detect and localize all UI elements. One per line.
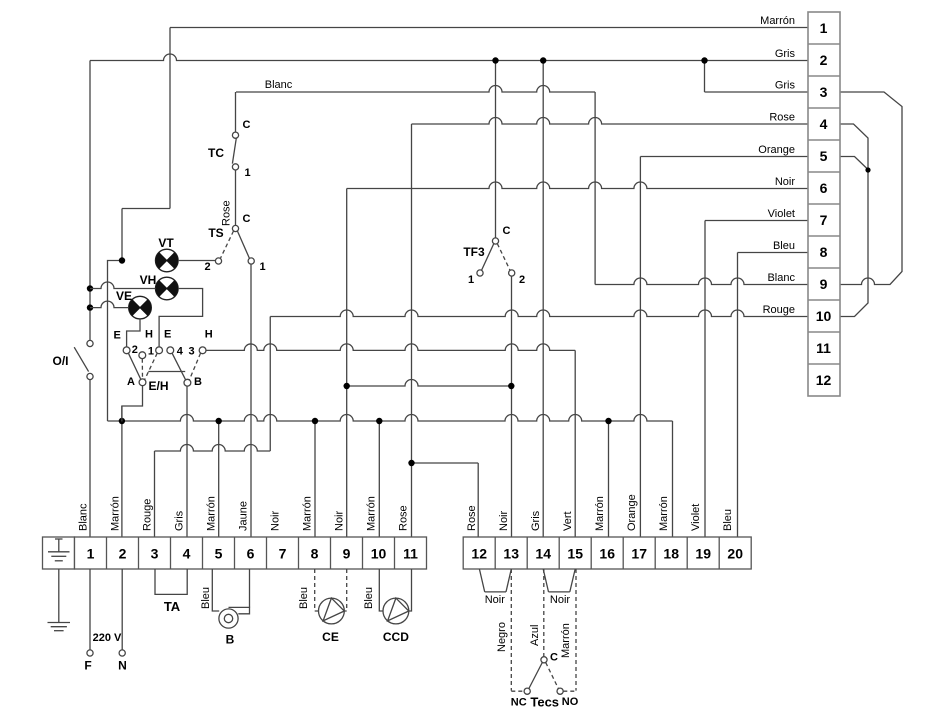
svg-text:Noir: Noir [550, 594, 571, 606]
component TA [155, 569, 187, 614]
wire TC riser [235, 92, 237, 132]
svg-text:12: 12 [816, 372, 832, 388]
svg-text:E: E [114, 329, 121, 341]
svg-text:2: 2 [132, 344, 138, 356]
svg-text:C: C [550, 652, 558, 664]
junction bus cell5 [216, 418, 222, 424]
svg-text:C: C [243, 119, 251, 131]
svg-text:5: 5 [215, 546, 223, 562]
svg-text:VH: VH [140, 273, 157, 287]
wire Blanc riser [594, 92, 596, 285]
svg-text:Blanc: Blanc [265, 79, 293, 91]
wire VH left [90, 282, 156, 289]
wire Marron to bus [108, 261, 123, 422]
wire Gris to terminal 2 [90, 54, 808, 61]
wire Violet to terminal 7 [705, 220, 808, 222]
switch TC [208, 119, 251, 179]
svg-text:Rose: Rose [466, 505, 478, 531]
lamp VH [140, 273, 178, 300]
wire Bleu to terminal 8 [738, 252, 809, 254]
svg-text:7: 7 [279, 546, 287, 562]
svg-text:Bleu: Bleu [363, 587, 375, 609]
svg-text:Rouge: Rouge [763, 304, 795, 316]
svg-text:Gris: Gris [174, 510, 186, 531]
svg-text:Vert: Vert [562, 511, 574, 531]
wire Orange to terminal 5 [640, 156, 808, 158]
svg-text:Marrón: Marrón [110, 496, 122, 531]
svg-text:E: E [164, 329, 171, 341]
ground symbol [48, 569, 71, 631]
svg-text:12: 12 [471, 546, 487, 562]
junction VH [87, 285, 93, 291]
pump B [212, 569, 249, 647]
svg-text:Azul: Azul [529, 625, 541, 646]
svg-text:H: H [145, 329, 153, 341]
svg-text:C: C [503, 225, 511, 237]
wire cell6 to pump [249, 569, 251, 607]
junction Gris-3 [701, 57, 707, 63]
wire VH right [159, 289, 203, 348]
terminal strip 12-20 [463, 537, 751, 569]
junction bus cell2 [119, 418, 125, 424]
wire cell 5 vertical [218, 421, 220, 537]
svg-text:2: 2 [119, 546, 127, 562]
svg-text:Noir: Noir [775, 176, 796, 188]
wire cell 8 vertical [314, 421, 316, 537]
svg-text:Rose: Rose [398, 505, 410, 531]
motor CE [315, 569, 347, 644]
label Azul [529, 625, 541, 646]
wire Blanc from TC [236, 86, 595, 93]
svg-text:14: 14 [535, 546, 551, 562]
svg-text:TS: TS [208, 226, 223, 240]
wire Marron bus [108, 415, 673, 421]
wire Rouge to terminal 10 [270, 310, 808, 316]
svg-text:Blanc: Blanc [78, 503, 90, 531]
svg-text:220 V: 220 V [93, 632, 122, 644]
svg-text:VE: VE [116, 289, 132, 303]
svg-text:B: B [194, 376, 202, 388]
link Noir 12-13 [479, 569, 511, 606]
switch TF3 [463, 225, 525, 286]
wire Azul [543, 569, 545, 657]
svg-text:10: 10 [371, 546, 387, 562]
svg-text:7: 7 [820, 212, 828, 228]
svg-text:9: 9 [820, 276, 828, 292]
svg-text:1: 1 [259, 261, 265, 273]
wire E/H B to cell 4 [186, 386, 188, 537]
junction bus cell10 [376, 418, 382, 424]
svg-text:Noir: Noir [270, 510, 282, 531]
svg-text:Noir: Noir [334, 510, 346, 531]
label Bleu CE [298, 587, 310, 609]
wire Noir link [347, 380, 512, 387]
wire Gris to terminal 3 [705, 91, 809, 93]
svg-text:13: 13 [503, 546, 519, 562]
wire cell 2 vertical [121, 406, 123, 537]
wire Marron down to VT [121, 209, 123, 261]
svg-text:9: 9 [343, 546, 351, 562]
svg-text:20: 20 [727, 546, 743, 562]
terminal block 1-12 [808, 12, 840, 396]
wire VE bottom [127, 319, 140, 347]
svg-text:3: 3 [151, 546, 159, 562]
svg-text:Bleu: Bleu [200, 587, 212, 609]
svg-text:1: 1 [820, 20, 828, 36]
svg-text:Gris: Gris [775, 80, 796, 92]
svg-text:Violet: Violet [768, 208, 795, 220]
wire Violet to cell 19 [704, 221, 706, 538]
junction Gris-14 [540, 57, 546, 63]
svg-text:Bleu: Bleu [298, 587, 310, 609]
svg-text:6: 6 [247, 546, 255, 562]
switch Tecs [511, 652, 579, 710]
wire TF3-2 to cell 13 [511, 276, 513, 537]
svg-text:19: 19 [695, 546, 711, 562]
label Bleu B [200, 587, 212, 609]
svg-text:2: 2 [820, 52, 828, 68]
svg-text:17: 17 [631, 546, 647, 562]
junction bus cell16 [605, 418, 611, 424]
wire Gris vertical to O/I [89, 61, 91, 341]
svg-text:1: 1 [87, 546, 95, 562]
svg-text:Marrón: Marrón [594, 496, 606, 531]
junction Noir-9 [344, 383, 350, 389]
wire Marron to terminal 1 [170, 27, 808, 29]
junction Gris-TF3 [492, 57, 498, 63]
svg-text:Blanc: Blanc [767, 272, 795, 284]
wire Marron vertical [169, 28, 171, 209]
wire Marron Tecs [563, 569, 576, 691]
svg-text:Jaune: Jaune [238, 501, 250, 531]
svg-text:10: 10 [816, 308, 832, 324]
lamp VE [116, 289, 151, 319]
svg-text:N: N [118, 659, 127, 673]
svg-text:Marrón: Marrón [658, 496, 670, 531]
svg-text:6: 6 [820, 180, 828, 196]
svg-text:Rouge: Rouge [142, 499, 154, 531]
svg-text:Rose: Rose [769, 112, 795, 124]
wire Gris stub [704, 61, 706, 93]
label Rose TC [221, 200, 233, 226]
svg-text:VT: VT [158, 236, 174, 250]
label 220 V [93, 632, 122, 644]
labels above strip 1-11 [78, 496, 410, 531]
labels above strip 12-20 [466, 494, 734, 531]
motor CCD [379, 569, 411, 644]
svg-text:TC: TC [208, 146, 224, 160]
wire Marron jog [122, 208, 170, 210]
switch O/I [52, 340, 93, 379]
wire cell 18 vertical [672, 421, 674, 537]
svg-text:B: B [226, 633, 235, 647]
label Blanc top [265, 79, 293, 91]
wire Rouge link [155, 445, 271, 451]
label Bleu CCD [363, 587, 375, 609]
wire Noir to terminal 6 [347, 182, 808, 188]
junction bus cell8 [312, 418, 318, 424]
svg-text:4: 4 [183, 546, 191, 562]
svg-text:11: 11 [403, 546, 418, 562]
svg-text:CE: CE [322, 630, 339, 644]
labels E/H [114, 329, 213, 394]
switch E/H contacts [123, 347, 206, 359]
wire terminal 3 to 9 loop [840, 92, 902, 285]
svg-text:Marrón: Marrón [302, 496, 314, 531]
svg-text:NO: NO [562, 696, 579, 708]
svg-text:Violet: Violet [690, 504, 702, 531]
wire cell 16 vertical [608, 421, 610, 537]
wire Noir vertical to cell 9 [346, 189, 348, 538]
svg-text:Orange: Orange [626, 494, 638, 531]
svg-text:Orange: Orange [758, 144, 795, 156]
wire VT to TS2 [178, 260, 215, 262]
wire cell 3 Rouge vertical [154, 451, 156, 537]
wire Rose to terminal 4 [412, 118, 809, 125]
svg-text:F: F [84, 659, 91, 673]
wire Vert to cell 15 [574, 350, 576, 537]
svg-text:Noir: Noir [485, 594, 506, 606]
wire TC1 to TS C [235, 170, 237, 225]
svg-text:Marrón: Marrón [206, 496, 218, 531]
link Noir 14-15 [543, 569, 575, 606]
wire Rose vertical to cell 11 [411, 124, 413, 537]
svg-text:Bleu: Bleu [722, 509, 734, 531]
svg-text:Tecs: Tecs [530, 695, 559, 710]
svg-text:A: A [127, 376, 135, 388]
wire Bleu to cell 20 [737, 253, 739, 538]
svg-text:CCD: CCD [383, 630, 409, 644]
wire E/H-3 to Vert cell 15 [206, 344, 575, 351]
svg-text:3: 3 [188, 346, 194, 358]
svg-text:8: 8 [820, 244, 828, 260]
svg-text:TA: TA [164, 599, 181, 614]
svg-text:4: 4 [820, 116, 828, 132]
lamp VT [156, 236, 179, 272]
svg-text:1: 1 [244, 167, 250, 179]
svg-text:O/I: O/I [52, 354, 68, 368]
junction right loop [865, 167, 870, 172]
wire VE left [90, 301, 129, 308]
terminal strip 1-11 with ground [43, 537, 427, 569]
svg-text:Marrón: Marrón [560, 623, 572, 658]
wire TF3 riser [495, 61, 497, 238]
svg-text:15: 15 [567, 546, 583, 562]
wire A to bus [122, 386, 143, 422]
junction VT [119, 257, 125, 263]
svg-text:C: C [243, 213, 251, 225]
wire TS-1 to cell 6 Jaune [250, 264, 252, 537]
svg-text:Negro: Negro [496, 622, 508, 652]
svg-text:3: 3 [820, 84, 828, 100]
junction Rose-11 [408, 460, 414, 466]
terminal F [84, 569, 93, 673]
svg-text:Gris: Gris [530, 510, 542, 531]
svg-text:8: 8 [311, 546, 319, 562]
svg-text:1: 1 [468, 274, 474, 286]
svg-text:16: 16 [599, 546, 615, 562]
svg-text:Gris: Gris [775, 48, 796, 60]
terminal block wire labels [758, 15, 795, 316]
svg-text:Marrón: Marrón [760, 15, 795, 27]
svg-text:11: 11 [816, 340, 831, 356]
switch TS [204, 213, 265, 273]
svg-text:Marrón: Marrón [366, 496, 378, 531]
junction VE [87, 304, 93, 310]
svg-text:NC: NC [511, 697, 527, 709]
wire Negro [511, 569, 524, 691]
wire Blanc to terminal 9 [595, 278, 808, 284]
wire Rose to cell 12 [477, 463, 479, 537]
svg-text:1: 1 [148, 345, 154, 357]
terminal N [118, 569, 127, 673]
svg-text:H: H [205, 329, 213, 341]
switch E/H arms [128, 353, 200, 380]
svg-text:4: 4 [177, 346, 184, 358]
wire O/I to cell 1 [89, 380, 91, 537]
svg-text:TF3: TF3 [463, 245, 485, 259]
wire cell 10 vertical [378, 421, 380, 537]
svg-text:5: 5 [820, 148, 828, 164]
svg-text:Noir: Noir [498, 510, 510, 531]
wire Rouge riser [269, 317, 271, 452]
svg-text:E/H: E/H [148, 379, 168, 393]
wire Rose link [412, 462, 479, 464]
wire terminal 4-5 to 10 loop [840, 124, 868, 317]
wire Orange to cell 17 [639, 157, 641, 538]
switch E/H pivots [139, 379, 191, 386]
svg-text:Bleu: Bleu [773, 240, 795, 252]
svg-text:2: 2 [204, 261, 210, 273]
label Negro [496, 622, 508, 652]
junction Noir-13 [508, 383, 514, 389]
svg-text:Rose: Rose [221, 200, 233, 226]
svg-text:18: 18 [663, 546, 679, 562]
svg-text:2: 2 [519, 274, 525, 286]
wire Gris to cell 14 [542, 61, 544, 538]
label Marron Tecs [560, 623, 572, 658]
